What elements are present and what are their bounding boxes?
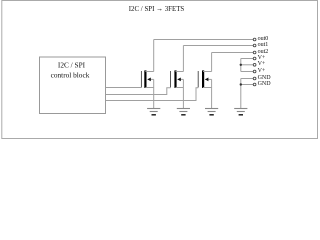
transistor Q2 gate [170,71,172,87]
ground Q2 [177,109,190,115]
svg-text:V+: V+ [258,68,266,74]
wire gate1 [106,87,141,89]
wire V+ stub 2 [241,64,254,66]
wire V+ stub 3 [241,71,254,73]
transistor Q3 drain stub [203,71,212,73]
ground Q3 [205,109,218,115]
svg-text:V+: V+ [258,61,266,67]
transistor Q1 channel bar [144,70,146,88]
junction dot V+ [240,64,242,66]
wire Q1 source down [153,79,155,108]
wire out0 rail [154,39,254,41]
svg-text:out1: out1 [258,42,269,48]
ground GND bus [234,109,247,115]
node out0 [253,38,256,41]
transistor Q2 source stub [176,87,184,89]
wire Q3 drain up [211,53,213,72]
node V+ 2 [253,63,256,66]
wire out2 rail [212,52,254,54]
node GND 1 [253,77,256,80]
wire GND stub 2 [241,84,254,86]
svg-text:I2C / SPI → 3FETS: I2C / SPI → 3FETS [129,4,185,13]
border frame [2,1,318,139]
transistor Q2 drain stub [176,71,184,73]
wire V+ stub 1 [241,58,254,60]
transistor Q1 source stub [145,87,153,89]
transistor Q1 drain stub [145,71,153,73]
wire gate2 [106,88,171,95]
wire Q1 drain up [153,40,155,72]
transistor Q3 gate [197,71,199,87]
transistor Q1 gate [140,71,142,87]
node out2 [253,51,256,54]
wire Q2 source down [182,79,184,108]
ground Q1 [147,109,160,115]
control block U1 [40,57,106,114]
transistor Q2 channel bar [174,70,176,88]
transistor Q2 bulk arrow [177,78,183,80]
wire Q2 drain up [182,46,184,72]
svg-text:GND: GND [258,81,272,87]
GND bus [240,79,242,109]
svg-text:V+: V+ [258,55,266,61]
node GND 2 [253,83,256,86]
transistor Q3 channel bar [202,70,204,88]
junction dot GND [240,83,242,85]
svg-text:control block: control block [51,71,90,80]
wire GND stub 1 [241,78,254,80]
node out1 [253,44,256,47]
V+ bus [240,59,242,72]
wire gate3 [106,88,198,101]
svg-text:I2C / SPI: I2C / SPI [58,60,86,69]
wire Q3 source down [211,79,213,108]
transistor Q3 bulk arrow [205,78,212,80]
node V+ 1 [253,57,256,60]
transistor Q3 source stub [203,87,212,89]
node V+ 3 [253,70,256,73]
transistor Q1 bulk arrow [148,78,154,80]
wire out1 rail [183,45,253,47]
